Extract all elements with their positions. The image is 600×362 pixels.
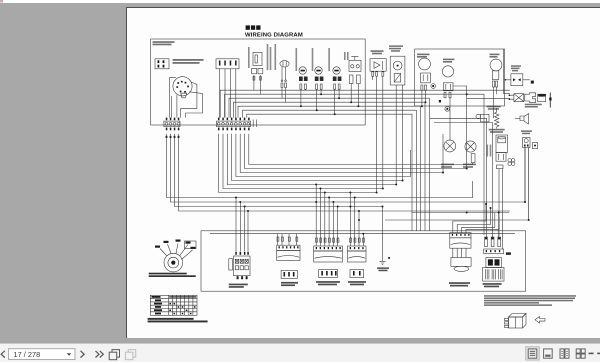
view-mode facing-continuous icon	[544, 349, 553, 358]
module F fuse links	[485, 237, 488, 247]
module E label	[449, 282, 470, 286]
capacitor C1	[538, 94, 546, 101]
auto glow label	[521, 130, 532, 134]
hour meter M	[280, 61, 289, 67]
key position diagram	[164, 253, 183, 272]
toolbar dropdown caret	[67, 353, 72, 356]
battery tag	[506, 252, 511, 254]
label STARTING MOTOR	[173, 59, 204, 64]
starting switch SW1	[173, 77, 192, 96]
svg-text:WIREING DIAGRAM: WIREING DIAGRAM	[245, 32, 303, 38]
engine stop timer U2	[511, 74, 523, 86]
cigar lighter CL	[496, 135, 508, 153]
flasher unit label	[371, 50, 384, 54]
wire flasher drops	[372, 76, 374, 80]
module M3 connector	[350, 238, 352, 242]
module F label	[483, 283, 502, 287]
node P	[431, 84, 436, 89]
stub pins right of block B	[253, 120, 256, 128]
water temp sender WT	[442, 66, 453, 77]
vertical label strips meter panel	[248, 44, 349, 71]
wire lighter drops	[499, 169, 503, 249]
wire lower bundle from block B	[219, 76, 377, 192]
zoom-out dash	[589, 353, 594, 355]
legend table	[150, 295, 197, 315]
module E alternator connector	[450, 233, 471, 238]
view-mode single-page icon (selected)	[526, 347, 539, 360]
module F bar section	[483, 268, 504, 282]
indicator lamp L2	[315, 67, 322, 74]
stop solenoid bracket	[525, 93, 536, 103]
wires connector CN2 down to block B	[220, 69, 236, 118]
safety relay label	[229, 284, 248, 288]
zoom dash clipped	[597, 353, 600, 355]
horn label	[490, 54, 500, 58]
module M1 label	[281, 282, 298, 286]
water temp label	[443, 59, 455, 63]
wire relay feeders down	[236, 198, 248, 252]
stop solenoid label	[525, 104, 542, 108]
wire bus main bundle	[220, 90, 510, 117]
flasher unit U1	[370, 59, 386, 71]
glow plug heater R1	[495, 108, 499, 129]
glow plug label	[487, 106, 505, 133]
horn relay symbol	[520, 114, 529, 125]
fuel pump label	[417, 54, 430, 58]
pointer arrow	[535, 317, 545, 324]
wire mid horizontals right	[412, 212, 509, 214]
fuel pump P1	[419, 58, 431, 70]
wire lamp drops to bus	[254, 81, 359, 114]
wire water temp drop	[449, 98, 451, 140]
room lamp L6	[465, 141, 476, 152]
connector CN2	[216, 59, 239, 69]
safety relay block K3	[233, 256, 250, 276]
view-mode two-page icon	[560, 349, 569, 358]
node G	[476, 114, 480, 118]
white document page	[126, 7, 600, 338]
connector block B	[218, 118, 250, 121]
key diagram caption	[149, 273, 196, 277]
toolbar page-number box	[9, 349, 76, 360]
wire bus extensions right	[430, 118, 492, 237]
horn H1	[490, 59, 502, 71]
wire module M2 feeders	[316, 185, 338, 247]
wire fuel pump drops	[422, 91, 426, 107]
title kanji 配線図	[246, 25, 261, 29]
view-mode grid icon	[576, 349, 585, 358]
bottom harness box	[201, 231, 526, 291]
node B	[445, 106, 450, 111]
wire module E feeder brackets	[453, 204, 486, 233]
3d connector drawing	[509, 314, 527, 318]
auto glow controller U3	[523, 138, 531, 148]
connector block A	[166, 118, 180, 121]
toolbar prev-page chevron	[1, 351, 5, 358]
safety relay pins top	[235, 252, 249, 255]
module F relay box	[484, 249, 504, 254]
lighter pins	[497, 165, 504, 169]
safety relay narrow box	[229, 259, 233, 270]
fuse panel enclosure box	[151, 39, 366, 125]
indicator lamp L3	[333, 67, 340, 74]
indicator lamp L1	[299, 67, 306, 74]
wire solenoid drop	[504, 49, 510, 94]
module M3 label	[348, 281, 366, 285]
meter lamp label	[389, 45, 403, 51]
connector CN1	[155, 59, 169, 69]
note text	[484, 295, 576, 306]
cigar lighter label strips	[487, 145, 492, 157]
sensor S3	[533, 143, 538, 149]
panel relay K1	[351, 57, 358, 61]
toolbar cascade-pages icon (disabled)	[125, 350, 135, 360]
module M2 label	[316, 281, 340, 285]
preheat box	[480, 114, 489, 122]
wire long horizontals from block A	[167, 134, 473, 198]
window top-left smudge	[0, 0, 3, 3]
module M2 connector	[316, 238, 318, 242]
toolbar last-page double chevron	[96, 351, 104, 358]
stop solenoid relay K2	[514, 94, 524, 102]
ground body earth	[380, 261, 386, 264]
speaker clover	[508, 159, 512, 163]
toolbar cascade-pages icon (active)	[109, 350, 119, 360]
fuse panel corner label	[153, 41, 175, 45]
wire WT to stop relay	[467, 98, 510, 100]
wire controller drops	[525, 148, 529, 221]
wires key switch to connector A	[169, 78, 176, 118]
engine stop label	[511, 65, 521, 71]
wire module M3 feeders	[350, 193, 363, 247]
key start label box	[185, 241, 197, 249]
junction dots	[235, 93, 530, 235]
wire horn drop	[494, 87, 497, 118]
room lamp L5	[444, 140, 456, 152]
engine harness enclosure	[415, 49, 505, 106]
svg-text:17 / 278: 17 / 278	[14, 350, 41, 359]
meter lamp assembly L4	[390, 56, 405, 85]
legend caption	[148, 318, 208, 323]
panel switch S2	[253, 52, 262, 65]
resistor R2	[471, 154, 475, 163]
stub far right	[549, 93, 551, 108]
alternator oval	[454, 266, 469, 271]
module M1 starter connector	[277, 237, 279, 241]
bottom toolbar	[0, 343, 600, 362]
room lamp label	[441, 164, 476, 168]
wire module M1 feeders	[278, 234, 297, 246]
toolbar next-page chevron	[81, 351, 85, 358]
